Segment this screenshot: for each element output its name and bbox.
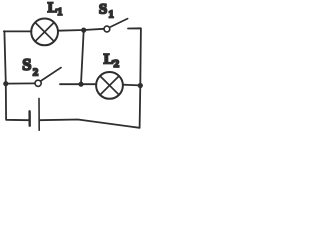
node junction top — [81, 28, 86, 33]
lamp L1 — [31, 19, 58, 46]
wire middle (to lamp L2 through node) — [60, 83, 96, 85]
svg-text:S: S — [99, 1, 107, 17]
lamp L2 — [96, 72, 123, 99]
wire lamp L2 right — [123, 84, 140, 87]
svg-text:L: L — [104, 52, 114, 68]
node junction middle — [78, 82, 83, 87]
svg-text:2: 2 — [114, 58, 120, 70]
battery cell long plate — [38, 98, 40, 130]
wire top middle (lamp to switch S1 through node) — [58, 29, 104, 31]
svg-text:L: L — [48, 0, 58, 16]
svg-text:1: 1 — [57, 7, 62, 18]
svg-text:S: S — [22, 55, 31, 74]
switch S1 — [104, 26, 110, 32]
wire middle vertical — [81, 30, 84, 84]
svg-text:2: 2 — [33, 67, 39, 79]
wire left vertical + bottom-left to battery — [4, 31, 28, 120]
wire middle-left to switch S2 — [6, 82, 35, 84]
battery cell short plate — [28, 111, 31, 125]
wire top-right + right vertical + bottom to battery — [40, 28, 141, 128]
node junction right — [138, 83, 143, 88]
switch S2 — [35, 80, 41, 86]
svg-text:1: 1 — [109, 9, 114, 20]
node junction left — [3, 81, 8, 86]
wire top-left horizontal — [4, 30, 32, 32]
